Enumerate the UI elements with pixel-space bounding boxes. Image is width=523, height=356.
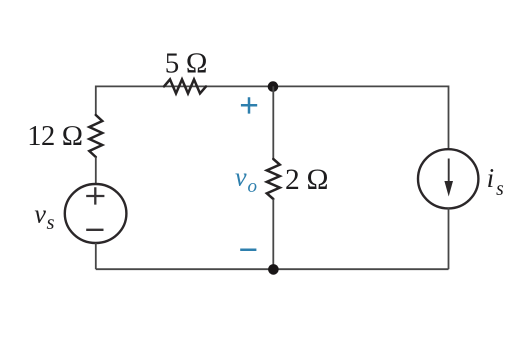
wire top from left corner to right corner <box>96 85 449 87</box>
label 5 ohm <box>165 47 208 79</box>
label vo <box>235 163 257 197</box>
wire right branch upper <box>448 86 450 151</box>
voltage source minus sign <box>86 229 103 231</box>
resistor 12 ohm <box>89 115 102 157</box>
label is <box>487 163 504 200</box>
wire bottom from left corner to right corner <box>96 268 449 270</box>
wire left branch between resistor and source <box>95 157 97 185</box>
voltage source plus sign <box>86 187 104 204</box>
node b junction dot bottom <box>268 264 279 275</box>
wire left branch upper segment <box>95 86 97 116</box>
label 2 ohm <box>285 164 328 196</box>
voltage source vs circle <box>65 184 127 243</box>
svg-text:5 Ω: 5 Ω <box>165 47 208 79</box>
svg-text:is: is <box>487 163 504 200</box>
node a junction dot top <box>268 81 279 92</box>
current source is circle <box>418 149 478 208</box>
svg-text:vs: vs <box>34 199 54 234</box>
resistor 5 ohm <box>164 79 206 93</box>
svg-text:2 Ω: 2 Ω <box>285 164 328 196</box>
wire middle branch upper <box>272 86 274 159</box>
label plus of vo <box>241 97 257 113</box>
current source arrow <box>444 159 453 197</box>
wire middle branch lower <box>272 199 274 269</box>
svg-text:12 Ω: 12 Ω <box>27 121 83 152</box>
wire left branch below source <box>95 243 97 269</box>
label vs <box>34 199 54 234</box>
label minus of vo <box>240 249 256 252</box>
wire right branch lower <box>448 208 450 269</box>
label 12 ohm <box>27 121 83 152</box>
resistor 2 ohm <box>267 159 280 199</box>
svg-text:vo: vo <box>235 163 257 197</box>
